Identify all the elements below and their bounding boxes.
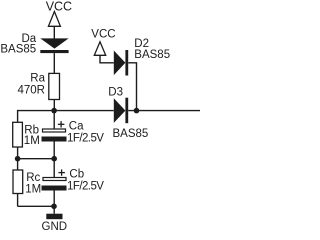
svg-text:D3: D3 (108, 86, 123, 98)
svg-text:1M: 1M (25, 184, 41, 196)
VCC symbol right (94, 42, 105, 56)
wire Ra to node (53, 100, 55, 111)
svg-text:BAS85: BAS85 (134, 49, 170, 61)
wire Rc to bottom row (17, 194, 19, 207)
VCC symbol left (48, 12, 60, 27)
node dot under Ra (51, 108, 57, 114)
node dot Ca bottom (51, 156, 57, 162)
svg-text:VCC: VCC (46, 0, 72, 13)
wire VCC2 to D2 (100, 55, 114, 63)
wire row2 to Cb (53, 159, 55, 178)
diode D2 (114, 50, 128, 76)
svg-text:BAS85: BAS85 (113, 128, 149, 140)
svg-text:1F/2.5V: 1F/2.5V (67, 133, 104, 145)
capacitor Ca (42, 129, 67, 142)
svg-text:VCC: VCC (91, 29, 115, 41)
svg-text:1F/2.5V: 1F/2.5V (67, 181, 104, 193)
svg-text:Rc: Rc (26, 172, 40, 184)
node dot right of D3 (134, 108, 140, 114)
wire D2 to node (128, 63, 136, 111)
resistor Ra (49, 73, 60, 99)
wire main node line left of D3 (18, 110, 114, 112)
wire row2 (18, 158, 55, 160)
ground (46, 214, 62, 220)
svg-text:D2: D2 (134, 38, 149, 50)
wire node to Ca (53, 111, 55, 129)
wire main node line right of D3 (128, 110, 200, 112)
plus sign Cb (58, 169, 65, 175)
svg-text:BAS85: BAS85 (0, 44, 36, 56)
svg-text:1M: 1M (24, 135, 40, 147)
resistor Rc (13, 170, 23, 194)
diode D3 (114, 98, 128, 124)
node dot Rb bottom (15, 156, 21, 162)
svg-text:470R: 470R (18, 85, 46, 97)
node dot above GND (51, 204, 57, 210)
wire row2 to Rc (17, 159, 19, 170)
wire Da to Ra (53, 53, 55, 73)
svg-text:Ra: Ra (30, 73, 45, 85)
plus sign Ca (58, 121, 65, 127)
wire Cb to GND (53, 191, 55, 214)
wire VCC to Da (53, 26, 55, 38)
svg-text:Ca: Ca (69, 121, 84, 133)
svg-text:Cb: Cb (69, 168, 84, 180)
wire corner down to Rb (17, 110, 19, 122)
wire Rb to row2 (17, 147, 19, 159)
diode Da (40, 38, 68, 53)
resistor Rb (13, 122, 23, 147)
wire Ca to row2 (53, 142, 55, 159)
wire bottom row (18, 205, 54, 207)
svg-text:GND: GND (42, 221, 68, 232)
capacitor Cb (42, 178, 67, 191)
